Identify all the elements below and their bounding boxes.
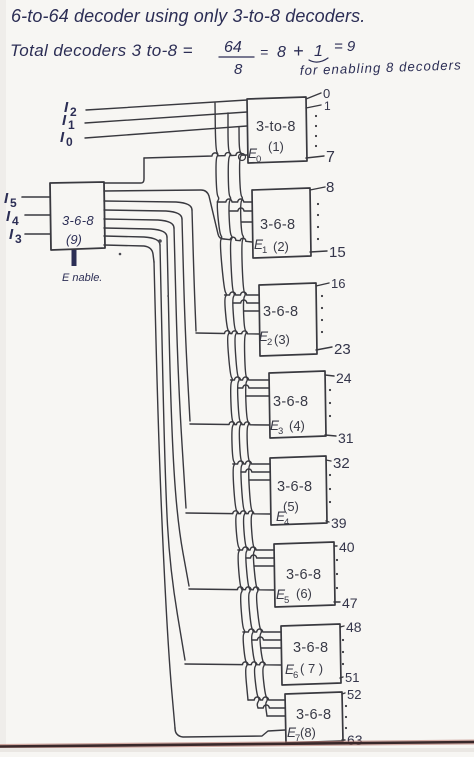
- svg-text:( 7 ): ( 7 ): [300, 661, 323, 676]
- svg-text:48: 48: [346, 619, 362, 635]
- svg-text:31: 31: [338, 430, 354, 446]
- svg-text:E nable.: E nable.: [62, 272, 102, 284]
- svg-text:3-6-8: 3-6-8: [263, 304, 298, 320]
- svg-text:32: 32: [333, 455, 350, 472]
- svg-text:0: 0: [66, 135, 73, 149]
- svg-text:3-6-8: 3-6-8: [273, 394, 308, 410]
- svg-text:3-to-8: 3-to-8: [256, 119, 296, 135]
- svg-text:5: 5: [284, 595, 289, 606]
- svg-text:6-to-64 decoder using only 3-t: 6-to-64 decoder using only 3-to-8 decode…: [11, 6, 365, 26]
- svg-text:15: 15: [329, 244, 346, 261]
- svg-text:47: 47: [342, 595, 358, 611]
- svg-text:(2): (2): [273, 239, 289, 254]
- svg-text:(5): (5): [283, 499, 299, 514]
- svg-text:6: 6: [293, 670, 298, 681]
- svg-text:+: +: [293, 41, 304, 61]
- svg-text:(6): (6): [296, 586, 312, 601]
- svg-text:3-6-8: 3-6-8: [62, 213, 94, 228]
- svg-text:3-6-8: 3-6-8: [260, 217, 295, 233]
- svg-text:8: 8: [326, 179, 334, 196]
- svg-text:(9): (9): [66, 232, 82, 247]
- svg-text:3-6-8: 3-6-8: [296, 707, 331, 723]
- svg-text:23: 23: [334, 341, 351, 358]
- svg-text:=: =: [260, 44, 268, 60]
- svg-text:3-6-8: 3-6-8: [286, 567, 321, 583]
- svg-text:3-6-8: 3-6-8: [293, 640, 328, 656]
- svg-text:1: 1: [68, 118, 75, 132]
- svg-text:7: 7: [326, 149, 335, 166]
- svg-text:52: 52: [347, 687, 361, 702]
- svg-text:3: 3: [15, 232, 22, 246]
- svg-text:(3): (3): [274, 332, 290, 347]
- svg-text:4: 4: [284, 517, 289, 528]
- svg-text:Total decoders 3 to-8 =: Total decoders 3 to-8 =: [10, 41, 193, 60]
- svg-text:3: 3: [278, 426, 283, 437]
- svg-text:51: 51: [345, 670, 359, 685]
- svg-text:40: 40: [339, 539, 355, 555]
- svg-text:64: 64: [224, 39, 242, 56]
- svg-text:8: 8: [277, 44, 286, 61]
- svg-text:= 9: = 9: [334, 38, 356, 55]
- svg-text:(1): (1): [268, 139, 284, 154]
- svg-text:1: 1: [262, 245, 267, 256]
- svg-text:(4): (4): [289, 418, 305, 433]
- svg-text:39: 39: [331, 515, 347, 531]
- svg-text:8: 8: [234, 61, 243, 78]
- svg-text:(8): (8): [300, 725, 316, 740]
- svg-text:24: 24: [336, 370, 352, 386]
- svg-text:1: 1: [324, 99, 331, 113]
- svg-text:16: 16: [331, 276, 345, 291]
- svg-text:2: 2: [267, 337, 272, 348]
- svg-text:3-6-8: 3-6-8: [277, 479, 312, 495]
- svg-text:0: 0: [256, 154, 261, 165]
- svg-text:1: 1: [314, 43, 323, 60]
- svg-text:2: 2: [70, 105, 77, 119]
- svg-text:5: 5: [10, 196, 17, 210]
